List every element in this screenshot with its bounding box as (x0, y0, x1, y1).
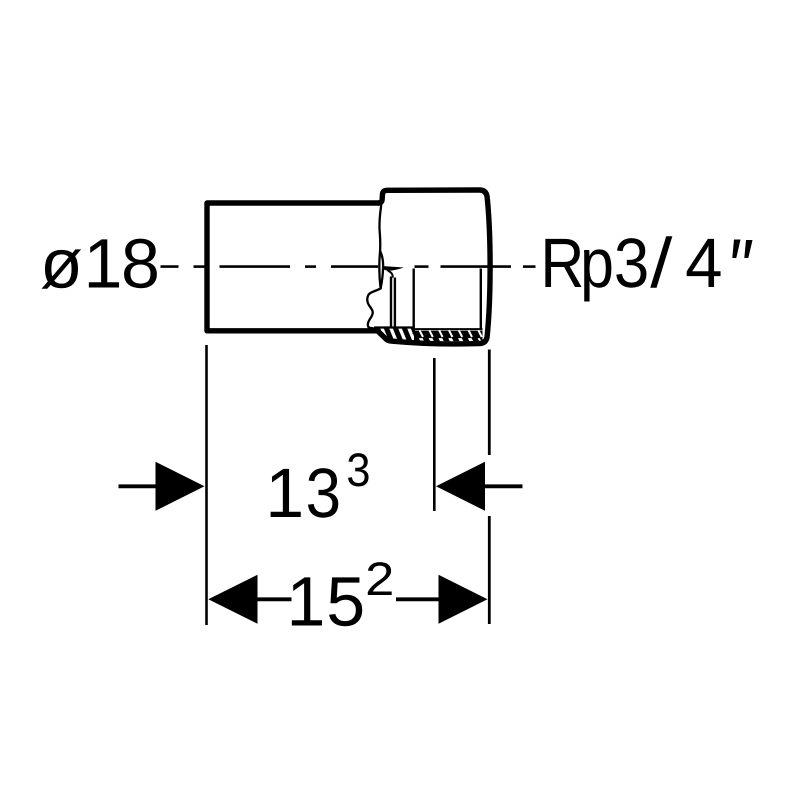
svg-text:1: 1 (265, 454, 304, 532)
extension line right (x=489.3) lower (488, 516, 491, 624)
svg-text:3: 3 (614, 224, 649, 302)
bore line right (480, 269, 482, 331)
svg-text:5: 5 (326, 563, 365, 641)
extension line right (x=489.3) upper (488, 350, 491, 456)
tube body outline (207, 203, 379, 331)
section lip (beak) (382, 266, 404, 271)
thread band top line left (374, 326, 414, 328)
svg-text:3: 3 (346, 443, 370, 496)
svg-text:1: 1 (287, 563, 326, 641)
svg-text:8: 8 (121, 225, 160, 303)
thread bore line left pair (390, 277, 392, 328)
break line spindle right side (380, 251, 383, 288)
svg-text:4: 4 (685, 224, 722, 302)
svg-text:3: 3 (305, 454, 341, 532)
dim 13 right arrow (436, 462, 485, 511)
extension line left (x=206.5) (205, 345, 208, 625)
dim 15 right arrow (396, 597, 440, 601)
thread band top line right (414, 328, 483, 330)
thread band middle line right (414, 336, 483, 338)
svg-text:/: / (650, 224, 673, 302)
break line (freehand wavy) (367, 206, 381, 330)
svg-text:p: p (580, 224, 614, 302)
svg-text:ø: ø (40, 225, 83, 303)
thread hatch band (377, 326, 486, 343)
svg-text:1: 1 (84, 225, 123, 303)
centerline (dash-dot axis) (161, 265, 536, 268)
socket body outline (378, 190, 491, 344)
label inch marks (732, 240, 740, 259)
thread crest row (dark with slits) (414, 331, 483, 337)
extension line middle (x=434.3) (433, 358, 436, 511)
dim 13 left arrow (119, 484, 158, 488)
svg-text:R: R (540, 224, 584, 302)
svg-text:2: 2 (365, 552, 394, 605)
thread end line (413, 269, 415, 335)
dim 15 left arrow (208, 575, 257, 624)
